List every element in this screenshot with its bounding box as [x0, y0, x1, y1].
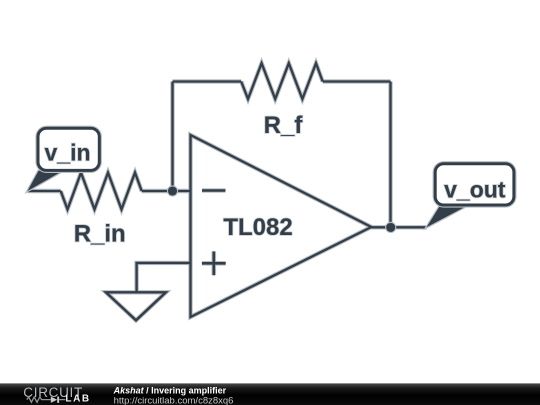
wire: feedback top left horizontal [173, 80, 242, 82]
flag v_in [28, 128, 100, 191]
svg-text:v_out: v_out [444, 177, 506, 203]
resistor R_f [241, 63, 323, 99]
op-amp minus pin mark [202, 189, 226, 192]
wire: feedback vertical left (node A up) [171, 82, 173, 192]
svg-text:R_f: R_f [264, 112, 304, 139]
op-amp U1 triangle [191, 135, 372, 317]
ground [106, 292, 166, 320]
svg-text:Akshat / Invering amplifier: Akshat / Invering amplifier [113, 386, 227, 396]
op-amp plus pin mark [202, 251, 226, 275]
flag v_out [427, 164, 514, 228]
node A junction dot (inverting input) [167, 185, 178, 196]
wire: input left segment from v_in anchor [28, 190, 61, 192]
svg-text:http://circuitlab.com/c8z8xq6: http://circuitlab.com/c8z8xq6 [114, 395, 234, 405]
wire: non-inverting input to ground stub [137, 263, 191, 292]
svg-text:v_in: v_in [44, 140, 90, 166]
soft halo under-layer for wires [28, 63, 428, 320]
logo resistor squiggle [27, 397, 51, 402]
wire: from R_in to inverting input [142, 190, 191, 192]
svg-text:TL082: TL082 [223, 214, 292, 241]
svg-text:LAB: LAB [65, 394, 90, 405]
svg-text:R_in: R_in [74, 220, 126, 247]
logo diode [51, 397, 57, 403]
wire: output [371, 226, 427, 228]
output node junction dot [385, 222, 396, 233]
resistor R_in [61, 173, 142, 210]
wire: feedback top right horizontal [323, 80, 391, 82]
wire: feedback vertical right down to output node [389, 82, 391, 228]
